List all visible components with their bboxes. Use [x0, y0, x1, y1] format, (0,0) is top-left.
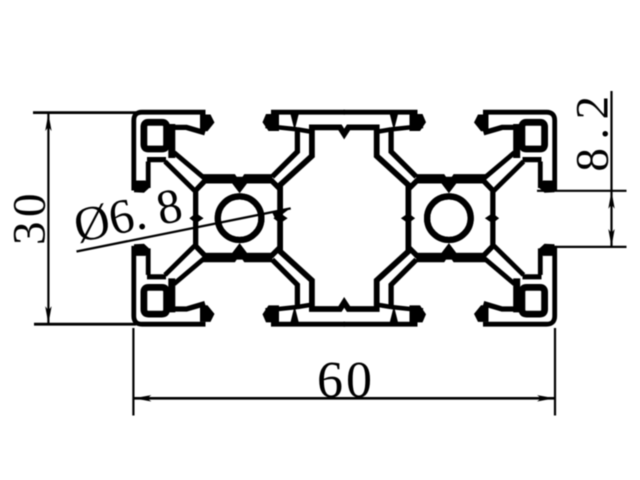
dimension 8.2: lower arrow — [608, 229, 614, 247]
dimension 30: bottom extension line — [34, 323, 136, 326]
dimension 30: top extension line — [33, 111, 136, 114]
dimension 8.2: upper arrow — [608, 191, 614, 209]
center cavity octagon with V-teeth — [280, 127, 408, 309]
leader arrowhead — [272, 209, 290, 220]
bottom-right quadrant (mirror) — [344, 181, 555, 324]
svg-text:30: 30 — [4, 189, 56, 245]
dimension 60: right arrow — [537, 395, 555, 401]
top-right quadrant (mirror) — [344, 112, 555, 255]
dimension 30: bottom arrow — [45, 306, 51, 324]
dimension 60: left arrow — [134, 395, 152, 401]
dimension 8.2: upper extension line — [537, 190, 627, 192]
svg-text:Ø6. 8: Ø6. 8 — [69, 177, 187, 253]
bottom-left quadrant (mirror) — [134, 181, 345, 324]
dimension 8.2: lower extension line — [549, 246, 627, 248]
svg-text:60: 60 — [317, 352, 375, 409]
dimension 60: right extension line — [554, 328, 556, 416]
dimension 30: dimension line — [47, 113, 49, 324]
dimension 60: left extension line — [132, 328, 134, 416]
dimension 30: top arrow — [45, 114, 51, 132]
svg-text:8.2: 8.2 — [567, 87, 619, 171]
top-left quadrant — [134, 112, 345, 255]
leader line for diameter callout — [77, 208, 291, 251]
dimension 60: dimension line — [133, 397, 555, 400]
dimension 8.2: dimension line — [610, 91, 612, 247]
